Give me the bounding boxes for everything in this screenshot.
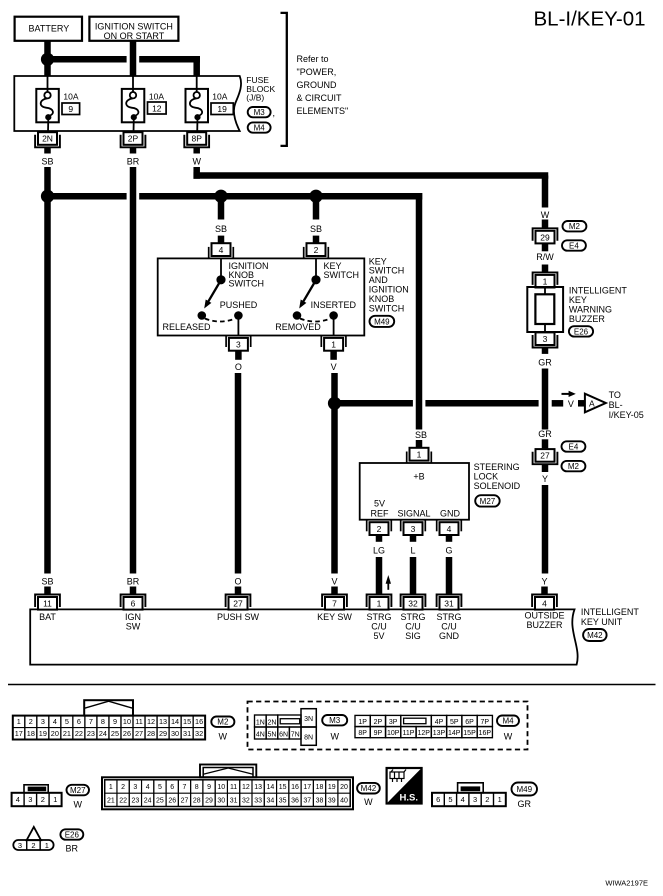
svg-text:O: O xyxy=(235,362,242,372)
svg-text:14P: 14P xyxy=(448,730,461,737)
svg-text:38: 38 xyxy=(316,797,324,804)
svg-text:6: 6 xyxy=(77,717,81,726)
ignition knob switch contacts xyxy=(220,258,222,276)
svg-text:3: 3 xyxy=(28,795,32,804)
connector ref M27 oval xyxy=(475,495,500,506)
svg-text:4: 4 xyxy=(219,245,224,255)
svg-text:SB: SB xyxy=(415,430,427,440)
svg-text:3: 3 xyxy=(236,340,241,350)
svg-text:LOCK: LOCK xyxy=(474,472,499,482)
svg-text:17: 17 xyxy=(303,784,311,791)
svg-text:15: 15 xyxy=(279,784,287,791)
connector 6 IGN SW xyxy=(121,595,146,608)
svg-text:3: 3 xyxy=(473,795,477,804)
svg-text:10P: 10P xyxy=(387,730,400,737)
svg-text:M4: M4 xyxy=(502,717,514,726)
H.S. super multiple junction mark xyxy=(387,768,422,804)
svg-text:M49: M49 xyxy=(516,785,532,794)
svg-text:5: 5 xyxy=(65,717,69,726)
connector 32 STRG SIG xyxy=(401,595,426,608)
svg-text:8P: 8P xyxy=(191,134,202,144)
bus SB key switch feed xyxy=(44,193,126,200)
svg-text:31: 31 xyxy=(230,797,238,804)
svg-text:9: 9 xyxy=(207,784,211,791)
connector 1 steering lock solenoid xyxy=(406,452,408,464)
svg-text:SWITCH: SWITCH xyxy=(324,270,360,280)
svg-text:10: 10 xyxy=(217,784,225,791)
svg-text:9: 9 xyxy=(113,717,117,726)
connector ref M49 oval bottom xyxy=(512,783,538,796)
wire SB to key switch connector 2 xyxy=(313,196,320,219)
svg-text:M2: M2 xyxy=(217,718,229,727)
fuse 10A #9 xyxy=(36,89,59,122)
svg-text:BL-I/KEY-01: BL-I/KEY-01 xyxy=(534,8,646,31)
svg-text:PUSHED: PUSHED xyxy=(220,300,258,310)
svg-text:27: 27 xyxy=(233,599,243,609)
svg-text:4P: 4P xyxy=(435,719,444,726)
wire battery to fuse block xyxy=(44,41,51,77)
bracket refer-to xyxy=(281,13,287,146)
svg-text:4: 4 xyxy=(16,795,20,804)
connector 31 STRG GND xyxy=(437,595,462,608)
svg-text:SB: SB xyxy=(41,577,53,587)
svg-text:(J/B): (J/B) xyxy=(246,93,264,103)
svg-text:BL-: BL- xyxy=(609,400,623,410)
svg-text:ON OR START: ON OR START xyxy=(104,31,165,41)
svg-text:SB: SB xyxy=(41,156,53,166)
svg-text:C/U: C/U xyxy=(371,621,387,631)
connector layout M27 4-pin xyxy=(24,785,48,793)
svg-text:23: 23 xyxy=(87,729,95,738)
svg-text:36: 36 xyxy=(291,797,299,804)
svg-text:27: 27 xyxy=(181,797,189,804)
svg-text:V: V xyxy=(568,399,574,409)
svg-text:10A: 10A xyxy=(212,91,227,101)
svg-text:1: 1 xyxy=(53,795,57,804)
wire LG 5V ref xyxy=(376,557,383,594)
svg-text:INTELLIGENT: INTELLIGENT xyxy=(581,607,640,617)
connector 4 solenoid GND xyxy=(436,520,438,532)
intelligent key warning buzzer E26 xyxy=(527,287,563,332)
svg-text:10A: 10A xyxy=(63,91,78,101)
svg-text:,: , xyxy=(273,108,276,118)
connector ref E4 oval xyxy=(562,240,586,250)
svg-text:37: 37 xyxy=(303,797,311,804)
svg-text:1: 1 xyxy=(17,717,21,726)
svg-text:W: W xyxy=(541,210,550,220)
svg-text:19: 19 xyxy=(328,784,336,791)
svg-text:W: W xyxy=(364,797,373,807)
svg-text:& CIRCUIT: & CIRCUIT xyxy=(297,93,343,103)
connector ref E4 oval 2 xyxy=(562,441,586,451)
svg-text:E4: E4 xyxy=(569,241,579,250)
svg-text:31: 31 xyxy=(444,599,454,609)
svg-text:12: 12 xyxy=(147,717,155,726)
connector 3 warning buzzer xyxy=(533,335,558,348)
svg-text:G: G xyxy=(445,545,452,555)
svg-text:4: 4 xyxy=(146,784,150,791)
svg-text:13: 13 xyxy=(254,784,262,791)
svg-text:BUZZER: BUZZER xyxy=(569,314,606,324)
connector 11 BAT xyxy=(35,595,60,608)
svg-text:5: 5 xyxy=(448,795,452,804)
svg-text:STRG: STRG xyxy=(400,612,425,622)
connector ref M3 oval bottom xyxy=(322,715,347,725)
svg-text:BR: BR xyxy=(66,844,79,854)
svg-text:8P: 8P xyxy=(358,730,367,737)
svg-text:2P: 2P xyxy=(128,134,139,144)
svg-text:2: 2 xyxy=(41,795,45,804)
svg-text:BR: BR xyxy=(127,577,140,587)
svg-text:12: 12 xyxy=(242,784,250,791)
connector layout E26 3-pin xyxy=(27,827,41,840)
svg-text:W: W xyxy=(330,732,339,742)
svg-text:14: 14 xyxy=(171,717,179,726)
svg-text:SIGNAL: SIGNAL xyxy=(397,508,430,518)
svg-text:6P: 6P xyxy=(465,719,474,726)
svg-text:24: 24 xyxy=(99,729,107,738)
connector layout M4 16-pin xyxy=(355,715,370,726)
svg-text:Y: Y xyxy=(542,474,548,484)
svg-text:BR: BR xyxy=(127,156,140,166)
svg-text:M3: M3 xyxy=(254,108,266,117)
svg-text:M2: M2 xyxy=(568,462,580,471)
svg-text:SB: SB xyxy=(215,224,227,234)
connector layout M42 40-pin xyxy=(200,765,256,778)
svg-text:SIG: SIG xyxy=(405,631,421,641)
fuse 10A #12 xyxy=(122,89,145,122)
off-page reference A triangle xyxy=(585,394,606,413)
wire SB battery column xyxy=(44,167,51,574)
svg-text:11: 11 xyxy=(135,717,143,726)
svg-text:29: 29 xyxy=(205,797,213,804)
svg-text:2: 2 xyxy=(29,717,33,726)
svg-text:9P: 9P xyxy=(374,730,383,737)
connector 8P xyxy=(184,135,209,148)
svg-text:11: 11 xyxy=(230,784,237,791)
connector 1 warning buzzer xyxy=(533,272,558,285)
svg-text:IGN: IGN xyxy=(125,612,141,622)
svg-text:13P: 13P xyxy=(433,730,446,737)
svg-text:16: 16 xyxy=(195,717,203,726)
svg-text:PUSH SW: PUSH SW xyxy=(217,612,260,622)
svg-text:23: 23 xyxy=(131,797,139,804)
svg-text:Y: Y xyxy=(541,577,547,587)
svg-text:1: 1 xyxy=(331,340,336,350)
svg-text:7P: 7P xyxy=(481,719,490,726)
connector layout M2 32-pin xyxy=(84,700,133,715)
svg-text:3N: 3N xyxy=(304,716,313,723)
svg-text:18: 18 xyxy=(316,784,324,791)
arrow signal direction up xyxy=(387,581,389,590)
connector ref M3 oval xyxy=(248,107,271,117)
junction V bus xyxy=(328,397,341,410)
svg-text:1: 1 xyxy=(45,841,49,850)
svg-text:20: 20 xyxy=(51,729,59,738)
svg-text:40: 40 xyxy=(340,797,348,804)
svg-text:17: 17 xyxy=(15,729,23,738)
svg-text:7: 7 xyxy=(332,599,337,609)
svg-text:SW: SW xyxy=(126,621,141,631)
svg-text:3: 3 xyxy=(18,841,22,850)
connector ref M4 oval bottom xyxy=(497,716,519,726)
svg-text:11: 11 xyxy=(43,599,52,609)
svg-text:SOLENOID: SOLENOID xyxy=(474,481,521,491)
svg-text:M42: M42 xyxy=(587,631,603,640)
wire Y outside buzzer xyxy=(542,485,549,574)
svg-text:3: 3 xyxy=(543,334,548,344)
svg-text:A: A xyxy=(589,398,595,408)
connector 3 knob switch xyxy=(225,336,227,348)
svg-text:2N: 2N xyxy=(42,134,53,144)
svg-text:7: 7 xyxy=(89,717,93,726)
wire stub into A triangle xyxy=(578,400,585,407)
svg-text:2: 2 xyxy=(485,795,489,804)
wire L signal xyxy=(410,557,417,594)
svg-text:LG: LG xyxy=(373,545,385,555)
svg-text:7: 7 xyxy=(183,784,187,791)
svg-text:BUZZER: BUZZER xyxy=(527,620,564,630)
svg-text:7N: 7N xyxy=(291,731,300,738)
svg-text:16P: 16P xyxy=(479,730,492,737)
svg-text:M3: M3 xyxy=(329,716,341,725)
connector ref M4 oval xyxy=(248,122,271,132)
svg-text:13: 13 xyxy=(159,717,167,726)
svg-text:4: 4 xyxy=(461,795,465,804)
fuse block box xyxy=(14,76,241,131)
connector 2P xyxy=(121,135,146,148)
connector ref M2 oval xyxy=(563,221,587,231)
svg-text:IGNITION SWITCH: IGNITION SWITCH xyxy=(95,21,173,31)
svg-text:15P: 15P xyxy=(463,730,476,737)
wire stubs into key unit xyxy=(44,587,51,595)
connector 27 PUSH SW xyxy=(226,595,251,608)
svg-text:5V: 5V xyxy=(374,498,385,508)
arrow direction marker xyxy=(562,393,571,395)
svg-text:Refer to: Refer to xyxy=(297,54,329,64)
svg-text:25: 25 xyxy=(156,797,164,804)
svg-text:1: 1 xyxy=(498,795,502,804)
svg-text:6: 6 xyxy=(170,784,174,791)
svg-text:1N: 1N xyxy=(256,719,265,726)
svg-text:12P: 12P xyxy=(417,730,430,737)
svg-text:26: 26 xyxy=(123,729,131,738)
svg-text:M27: M27 xyxy=(70,786,86,795)
wire GR buzzer down xyxy=(542,369,549,430)
svg-text:29: 29 xyxy=(540,232,550,242)
svg-text:2N: 2N xyxy=(267,719,276,726)
connector 4 OUTSIDE BUZZER xyxy=(532,595,557,608)
svg-text:6: 6 xyxy=(131,599,136,609)
svg-text:19: 19 xyxy=(217,104,227,114)
svg-text:6N: 6N xyxy=(279,731,288,738)
svg-text:REMOVED: REMOVED xyxy=(275,322,321,332)
svg-text:6: 6 xyxy=(436,795,440,804)
connector 1 STRG 5V xyxy=(367,595,392,608)
svg-text:12: 12 xyxy=(152,104,162,114)
wire ignition switch to fuse block xyxy=(130,41,137,77)
svg-text:22: 22 xyxy=(119,797,127,804)
svg-text:5V: 5V xyxy=(373,631,384,641)
svg-text:1: 1 xyxy=(417,449,422,459)
svg-text:34: 34 xyxy=(267,797,275,804)
svg-text:+B: +B xyxy=(413,471,424,481)
connector 2 key switch box xyxy=(313,236,320,244)
svg-text:3: 3 xyxy=(411,524,416,534)
wire SB to knob switch connector 4 xyxy=(218,196,225,219)
connector ref M2 oval bottom xyxy=(211,717,234,727)
svg-text:30: 30 xyxy=(217,797,225,804)
svg-text:GR: GR xyxy=(538,357,552,367)
svg-text:28: 28 xyxy=(193,797,201,804)
svg-text:STRG: STRG xyxy=(366,612,391,622)
svg-text:SWITCH: SWITCH xyxy=(369,303,405,313)
fuse 10A #19 xyxy=(186,89,209,122)
svg-text:BAT: BAT xyxy=(39,612,56,622)
svg-text:I/KEY-05: I/KEY-05 xyxy=(609,410,644,420)
svg-text:39: 39 xyxy=(328,797,336,804)
svg-text:REF: REF xyxy=(371,508,390,518)
svg-text:31: 31 xyxy=(183,729,191,738)
svg-text:GND: GND xyxy=(439,631,460,641)
connector ref M49 oval xyxy=(370,316,395,327)
svg-text:1P: 1P xyxy=(358,719,367,726)
svg-text:KEY UNIT: KEY UNIT xyxy=(581,617,623,627)
connector ref M2 oval 2 xyxy=(562,461,586,471)
svg-text:W: W xyxy=(73,800,82,810)
svg-text:4: 4 xyxy=(542,599,547,609)
svg-text:M49: M49 xyxy=(374,317,390,326)
svg-text:GR: GR xyxy=(538,429,552,439)
svg-text:8N: 8N xyxy=(304,734,313,741)
wire battery feed bus to fuse 19 xyxy=(44,56,126,63)
svg-text:19: 19 xyxy=(39,729,47,738)
svg-text:32: 32 xyxy=(195,729,203,738)
wire BR ignition column xyxy=(130,167,137,574)
connector 29 M2-E4 xyxy=(533,228,558,241)
connector 27 E4-M2 xyxy=(533,452,558,465)
svg-text:5N: 5N xyxy=(267,731,276,738)
svg-text:E26: E26 xyxy=(574,327,589,336)
svg-text:V: V xyxy=(331,577,337,587)
svg-text:21: 21 xyxy=(107,797,115,804)
svg-text:RELEASED: RELEASED xyxy=(162,322,211,332)
svg-text:21: 21 xyxy=(63,729,71,738)
svg-text:STEERING: STEERING xyxy=(474,462,520,472)
svg-text:M27: M27 xyxy=(480,497,496,506)
svg-text:W: W xyxy=(219,732,228,742)
junction SB bus knob switch xyxy=(214,190,227,203)
svg-text:11P: 11P xyxy=(402,730,414,737)
svg-text:ELEMENTS": ELEMENTS" xyxy=(297,106,349,116)
key switch contacts xyxy=(315,258,317,276)
svg-text:"POWER,: "POWER, xyxy=(297,67,337,77)
svg-text:SWITCH: SWITCH xyxy=(229,279,265,289)
svg-text:BATTERY: BATTERY xyxy=(29,24,70,34)
svg-text:4: 4 xyxy=(53,717,57,726)
connector 1 key switch xyxy=(320,336,322,348)
svg-text:4N: 4N xyxy=(256,731,265,738)
svg-text:E26: E26 xyxy=(65,830,80,839)
svg-text:GND: GND xyxy=(440,508,461,518)
separator line xyxy=(8,684,656,686)
svg-text:24: 24 xyxy=(144,797,152,804)
svg-text:1: 1 xyxy=(377,599,382,609)
connector 2 solenoid 5V REF xyxy=(366,520,368,532)
svg-text:M2: M2 xyxy=(569,222,581,231)
junction battery bus xyxy=(41,53,54,66)
junction SB bus at battery column xyxy=(41,190,54,203)
svg-text:C/U: C/U xyxy=(441,621,457,631)
svg-text:3: 3 xyxy=(133,784,137,791)
steering lock solenoid box M27 xyxy=(360,463,469,520)
svg-text:1: 1 xyxy=(543,276,548,286)
svg-text:M4: M4 xyxy=(254,123,266,132)
svg-text:SB: SB xyxy=(310,224,322,234)
svg-text:2P: 2P xyxy=(374,719,383,726)
svg-text:29: 29 xyxy=(159,729,167,738)
svg-text:2: 2 xyxy=(377,524,382,534)
svg-text:33: 33 xyxy=(254,797,262,804)
connector layout M49 6-pin xyxy=(458,783,484,793)
svg-text:27: 27 xyxy=(135,729,143,738)
svg-text:2: 2 xyxy=(121,784,125,791)
svg-text:L: L xyxy=(410,545,415,555)
wire V key switch column xyxy=(331,373,338,574)
dashed group box M3 M4 xyxy=(248,702,528,750)
connector ref E26 oval bottom xyxy=(60,829,83,839)
svg-text:15: 15 xyxy=(183,717,191,726)
svg-text:INSERTED: INSERTED xyxy=(311,300,357,310)
battery box xyxy=(15,17,82,41)
svg-text:3P: 3P xyxy=(389,719,398,726)
svg-text:V: V xyxy=(331,362,337,372)
bus V to key-05 xyxy=(331,400,413,407)
svg-text:KEY SW: KEY SW xyxy=(317,612,352,622)
wire G ground xyxy=(446,557,453,594)
svg-text:2: 2 xyxy=(31,841,35,850)
connector 7 KEY SW xyxy=(322,595,347,608)
svg-text:25: 25 xyxy=(111,729,119,738)
svg-text:M42: M42 xyxy=(361,784,377,793)
svg-text:26: 26 xyxy=(168,797,176,804)
svg-text:O: O xyxy=(234,577,241,587)
svg-text:1: 1 xyxy=(109,784,113,791)
svg-text:18: 18 xyxy=(27,729,35,738)
wire O push switch column xyxy=(235,373,242,574)
svg-text:H.S.: H.S. xyxy=(400,792,418,803)
junction SB bus key switch xyxy=(309,190,322,203)
svg-text:W: W xyxy=(192,156,201,166)
intelligent key unit box M42 xyxy=(30,609,577,664)
svg-text:R/W: R/W xyxy=(536,252,554,262)
svg-text:30: 30 xyxy=(171,729,179,738)
svg-text:WIWA2197E: WIWA2197E xyxy=(605,879,648,888)
wire W fuse 19 to right column xyxy=(193,167,200,179)
connector 2N xyxy=(35,135,60,148)
svg-text:28: 28 xyxy=(147,729,155,738)
svg-text:35: 35 xyxy=(279,797,287,804)
svg-text:14: 14 xyxy=(267,784,275,791)
svg-text:2: 2 xyxy=(314,245,319,255)
svg-text:STRG: STRG xyxy=(436,612,461,622)
svg-text:10: 10 xyxy=(123,717,131,726)
connector ref M42 oval bottom xyxy=(357,783,380,794)
svg-text:32: 32 xyxy=(408,599,418,609)
wire SB steering solenoid column xyxy=(416,193,423,430)
connector 4 key switch box xyxy=(218,236,225,244)
svg-text:16: 16 xyxy=(291,784,299,791)
